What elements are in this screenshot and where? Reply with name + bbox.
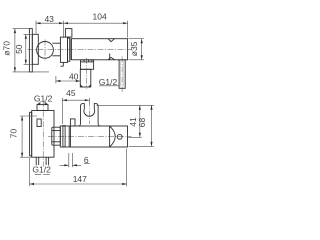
svg-text:6: 6: [84, 155, 89, 165]
svg-text:G1/2: G1/2: [32, 165, 51, 175]
svg-text:40: 40: [69, 71, 79, 81]
svg-text:70: 70: [9, 129, 19, 139]
svg-text:104: 104: [93, 11, 107, 21]
svg-text:45: 45: [66, 88, 76, 98]
svg-text:50: 50: [14, 44, 24, 54]
svg-text:G1/2: G1/2: [99, 77, 118, 87]
svg-text:G1/2: G1/2: [34, 94, 53, 104]
svg-text:68: 68: [137, 118, 147, 128]
svg-text:ø70: ø70: [2, 41, 12, 56]
svg-text:43: 43: [44, 14, 54, 24]
svg-text:ø35: ø35: [129, 41, 139, 56]
svg-text:147: 147: [73, 174, 87, 184]
